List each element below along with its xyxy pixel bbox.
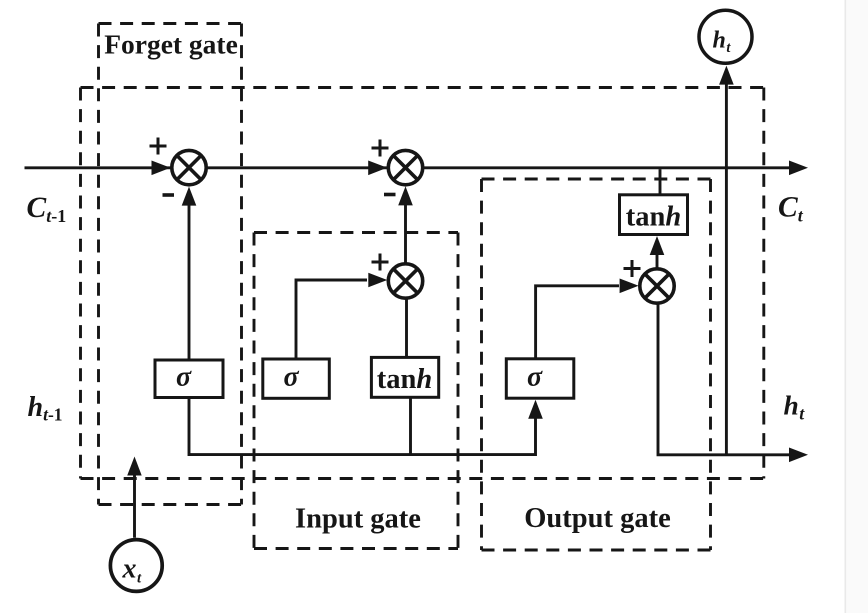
arrowhead: into ht node (719, 66, 734, 85)
sigma box S1 (155, 360, 223, 398)
svg-text:tanh: tanh (626, 202, 681, 233)
tanh box T1 (371, 357, 438, 397)
svg-text:tanh: tanh (377, 364, 432, 395)
svg-text:Output gate: Output gate (524, 503, 670, 534)
label: minus at M1 (163, 193, 175, 197)
label: plus at M2 (372, 140, 389, 157)
label: minus at M2 (384, 193, 396, 197)
wire: M3 down into tanh T1 (405, 299, 408, 357)
arrowhead: into S3 bottom (528, 400, 543, 419)
svg-text:Input gate: Input gate (295, 504, 421, 535)
multiplier M3 (circle-times) (388, 264, 422, 298)
multiplier M2 (circle-times) (388, 150, 422, 184)
wire: cell-state line C (horizontal) (25, 166, 792, 169)
wire: M3 up to M2 (404, 202, 407, 264)
tanh box T2 (620, 195, 688, 235)
multiplier M1 (circle-times) (172, 150, 206, 184)
node ht (circle) (699, 10, 752, 63)
arrowhead: into multiplier M2 (368, 161, 387, 176)
wire: xt up into cell (133, 473, 136, 538)
arrowhead: into M3 left (368, 273, 387, 288)
Output gate dashed box (482, 179, 711, 550)
wire: S2 up then right into M3 (296, 280, 367, 359)
sigma box S3 (506, 359, 574, 398)
node xt (circle) (110, 540, 162, 592)
wire: M4 down then right, output h bus (658, 304, 791, 455)
wire: C line down into T2 top (659, 169, 662, 195)
Input gate dashed box (254, 233, 458, 549)
label: plus at M1 (150, 138, 167, 155)
right page edge strip (845, 0, 868, 613)
arrowhead: into T2 bottom (650, 236, 665, 255)
svg-text:σ: σ (527, 362, 543, 393)
arrowhead: into multiplier M1 (152, 161, 171, 176)
label: plus at M4 (624, 260, 641, 277)
svg-text:Forget gate: Forget gate (104, 29, 238, 60)
wire: sigma1 up to M1 (188, 202, 191, 360)
multiplier M4 (circle-times) (640, 269, 674, 303)
arrowhead: into M4 left (620, 279, 639, 294)
label: plus at M3 (372, 254, 389, 271)
arrowhead: xt input (127, 457, 142, 476)
wire: T1 down to bottom h bus (409, 397, 412, 454)
wire: M4 up into tanh T2 (656, 252, 659, 268)
Forget gate dashed box (99, 24, 242, 505)
arrowhead: into M1 bottom (182, 187, 197, 206)
svg-text:σ: σ (283, 362, 299, 393)
wire: S3 up then right into M4 (536, 286, 619, 359)
wire: riser to ht node (725, 82, 728, 455)
wire: S1 down and bottom h bus to S3 (189, 398, 536, 455)
arrowhead: C line output Ct (789, 161, 808, 176)
arrowhead: into M2 bottom (398, 186, 413, 205)
svg-text:σ: σ (176, 362, 192, 393)
sigma box S2 (263, 359, 330, 398)
LSTM cell outer dashed box (81, 88, 764, 479)
arrowhead: h bus output (789, 448, 808, 463)
